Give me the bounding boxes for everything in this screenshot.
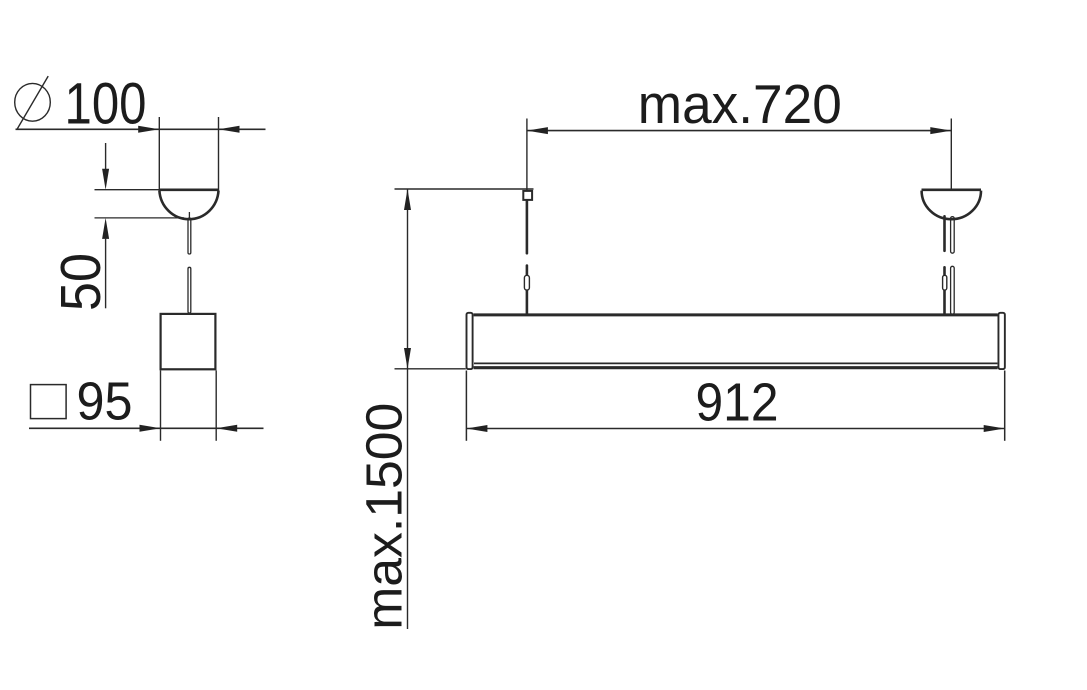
twin wire right tube segment 2 bbox=[951, 266, 955, 314]
svg-text:912: 912 bbox=[696, 373, 779, 432]
arrow 100 right bbox=[219, 126, 240, 133]
wire lower segment left view bbox=[188, 267, 191, 313]
svg-text:50: 50 bbox=[49, 253, 112, 311]
max.1500 bottom ref line bbox=[395, 368, 466, 370]
extension line 95 right bbox=[215, 371, 217, 441]
twin wire left segment 2 bbox=[943, 267, 946, 314]
dimension line max.720 bbox=[527, 130, 951, 132]
twin wire right tube segment 1 bbox=[951, 217, 955, 254]
dimension line 100 bbox=[16, 128, 266, 130]
max.1500 top ref line bbox=[395, 188, 534, 190]
arrow max.720 left bbox=[527, 127, 548, 134]
arrow 912 right bbox=[984, 425, 1005, 432]
left wire adjuster pill bbox=[524, 275, 529, 290]
wire upper segment left view bbox=[188, 218, 191, 254]
extension line 100 right bbox=[218, 117, 220, 191]
extension line max.720 left bbox=[526, 119, 528, 191]
luminaire body top edge bbox=[474, 313, 998, 316]
arrow max.720 right bbox=[930, 127, 951, 134]
dimension line 95 bbox=[29, 427, 264, 429]
extension line max.720 right bbox=[950, 119, 952, 190]
twin wire adjuster pill bbox=[943, 275, 947, 290]
arrow 912 left bbox=[466, 425, 487, 432]
canopy dome left view arc bbox=[159, 191, 218, 220]
arrow 95 left bbox=[140, 425, 161, 432]
extension line 95 left bbox=[160, 371, 162, 441]
extension line 100 left bbox=[158, 117, 160, 191]
dim 50 line upper tail bbox=[105, 143, 107, 170]
square symbol bbox=[31, 385, 67, 419]
arrow 50 up bbox=[102, 218, 109, 239]
svg-text:95: 95 bbox=[77, 373, 133, 432]
left wire segment 2 right view bbox=[526, 266, 529, 315]
canopy dome left view top line bbox=[159, 189, 218, 192]
wire hairline inside dome left view bbox=[188, 212, 190, 220]
canopy dome right view arc bbox=[922, 191, 981, 220]
max.1500 dimension line bbox=[407, 189, 409, 629]
arrow max.1500 down bbox=[404, 348, 411, 369]
dimension line 912 bbox=[466, 428, 1004, 430]
dim 50 ref line bottom bbox=[95, 217, 185, 219]
left wire segment 1 right view bbox=[526, 201, 529, 253]
luminaire end cap right bbox=[998, 313, 1004, 369]
extension line 912 right bbox=[1004, 371, 1006, 441]
dim 50 ref line top bbox=[95, 189, 160, 191]
twin wire left segment 1 bbox=[943, 216, 946, 251]
svg-text:max.1500: max.1500 bbox=[356, 403, 413, 630]
profile box end view bbox=[161, 314, 216, 369]
arrow max.1500 up bbox=[404, 189, 411, 210]
dim 50 line lower tail bbox=[105, 239, 107, 309]
luminaire body bottom edge bbox=[474, 366, 998, 369]
arrow 100 left bbox=[138, 126, 159, 133]
svg-text:max.720: max.720 bbox=[638, 74, 842, 135]
hanger square right view bbox=[523, 191, 532, 200]
arrow 95 right bbox=[216, 425, 237, 432]
luminaire body bottom groove line bbox=[474, 362, 997, 364]
extension line 912 left bbox=[465, 371, 467, 441]
diameter symbol bbox=[15, 76, 51, 129]
luminaire end cap left bbox=[467, 313, 473, 369]
svg-text:100: 100 bbox=[65, 72, 147, 137]
arrow 50 down bbox=[102, 169, 109, 190]
canopy dome right view top line bbox=[922, 189, 982, 192]
